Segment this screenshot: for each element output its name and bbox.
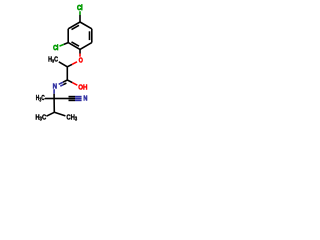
svg-text:N: N <box>83 95 87 103</box>
svg-text:Cl: Cl <box>77 5 83 13</box>
svg-text:Cl: Cl <box>53 45 58 53</box>
svg-text:N: N <box>53 83 58 90</box>
svg-text:O: O <box>79 57 83 65</box>
svg-text:OH: OH <box>78 84 87 92</box>
